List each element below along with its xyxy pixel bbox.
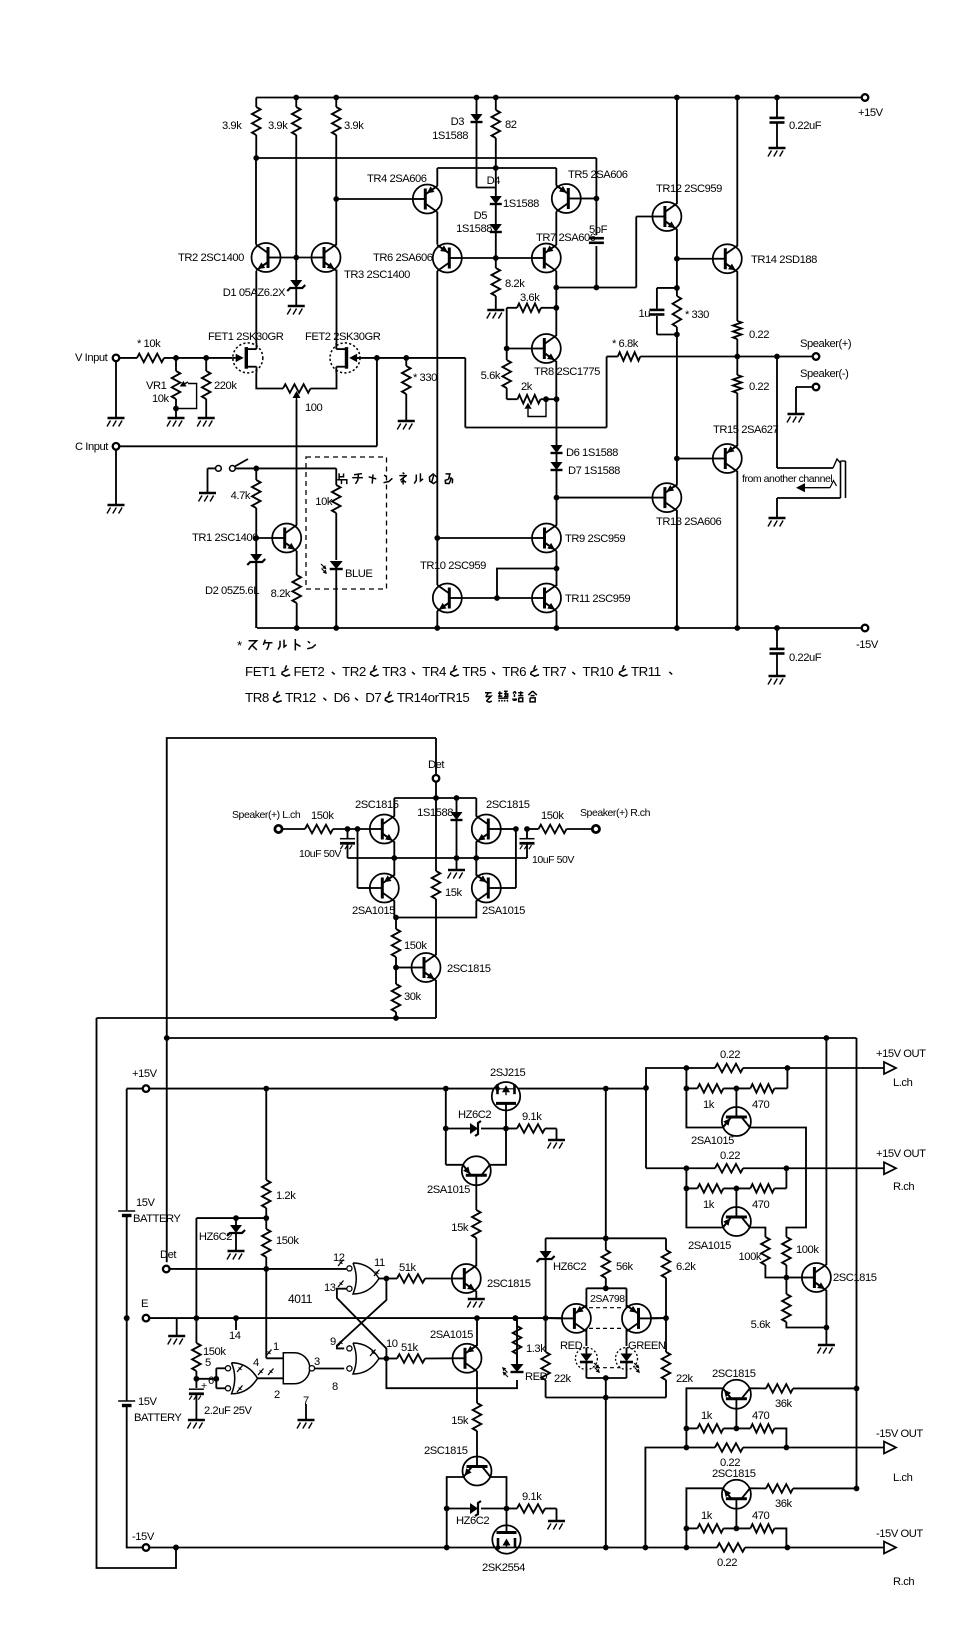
wire lim2 left col <box>685 1168 687 1188</box>
svg-text:2SJ215: 2SJ215 <box>490 1067 525 1079</box>
svg-text:5.6k: 5.6k <box>481 370 501 382</box>
resistor 0.22 out Lch- <box>715 1443 743 1452</box>
wire lim1 left col <box>685 1068 687 1088</box>
wire TR4 emitter to TR6 <box>436 212 438 245</box>
resistor 8.2k bias <box>495 258 497 268</box>
svg-text:6: 6 <box>208 1375 214 1387</box>
svg-text:D7 1S1588: D7 1S1588 <box>568 465 620 477</box>
gate 4011 A <box>347 1266 352 1271</box>
resistor 470 lim1 <box>734 1086 740 1092</box>
svg-text:9.1k: 9.1k <box>522 1111 542 1123</box>
wire -15V bottom rail <box>257 627 865 629</box>
wire pin14 stub <box>235 1318 237 1330</box>
wire det tr base <box>396 967 412 969</box>
svg-text:TR6: TR6 <box>502 664 526 679</box>
wire 2SA1015a collector <box>490 1129 506 1165</box>
resistor 1.3k <box>513 1315 519 1321</box>
wire TR9 emitter <box>556 551 558 586</box>
resistor 6.2k <box>665 1238 667 1250</box>
svg-text:2SK2554: 2SK2554 <box>482 1562 525 1574</box>
LED RED box <box>575 1348 597 1370</box>
svg-text:22k: 22k <box>676 1373 694 1385</box>
diode HZ6C2 zener a <box>446 1128 470 1130</box>
svg-text:C Input: C Input <box>75 441 109 453</box>
gate 4011 B <box>347 1346 352 1351</box>
wire gateC out <box>258 1377 284 1379</box>
wire rail1038 <box>167 1037 857 1039</box>
svg-text:R.ch: R.ch <box>893 1181 914 1193</box>
svg-text:+15V: +15V <box>858 107 884 119</box>
transistor 2SA798 left <box>562 1304 591 1333</box>
wire D6D7 column <box>556 399 558 445</box>
svg-text:2SC1815: 2SC1815 <box>486 799 530 811</box>
wire TR1 base <box>256 537 272 539</box>
LED GREEN box <box>616 1348 638 1370</box>
svg-text:TR3: TR3 <box>382 664 406 679</box>
input V terminal <box>113 355 120 362</box>
svg-text:51k: 51k <box>401 1342 419 1354</box>
svg-text:100k: 100k <box>796 1244 819 1256</box>
svg-text:FET2 2SK30GR: FET2 2SK30GR <box>305 331 381 343</box>
ground HZ6C2 b <box>228 1250 245 1253</box>
resistor 0.22 out Rch- <box>717 1543 745 1552</box>
wire reg b base <box>476 1431 478 1457</box>
svg-text:TR5: TR5 <box>462 664 486 679</box>
svg-text:TR15 2SA627: TR15 2SA627 <box>713 424 779 436</box>
svg-text:36k: 36k <box>775 1398 793 1410</box>
resistor 1k lim4 <box>686 1527 697 1529</box>
svg-text:+15V: +15V <box>132 1068 158 1080</box>
transistor TR2 2SC1400 <box>252 243 281 272</box>
transistor 2SC1815 reg b <box>463 1457 492 1486</box>
terminal Det mid <box>433 775 440 782</box>
terminal Det lower <box>163 1266 170 1273</box>
resistor 10k lamp <box>335 468 337 485</box>
gate 4011 D nand <box>283 1353 309 1384</box>
svg-text:Speaker(-): Speaker(-) <box>800 368 849 380</box>
resistor 51k b <box>386 1358 397 1360</box>
svg-text:100: 100 <box>305 402 323 414</box>
wire lim3 base <box>735 1409 737 1429</box>
diode D5 1S1588 <box>490 224 502 232</box>
svg-text:470: 470 <box>752 1410 770 1422</box>
wire 798 bases <box>546 1317 562 1319</box>
wire battery column <box>126 1089 128 1211</box>
svg-text:1S1588: 1S1588 <box>432 130 468 142</box>
wire lim2 470 up <box>785 1168 787 1188</box>
resistor 470 lim4 <box>723 1527 750 1529</box>
transistor 2SA1015 latch <box>453 1344 482 1373</box>
svg-text:D6 1S1588: D6 1S1588 <box>566 447 618 459</box>
transistor TR4 2SA606 <box>413 185 442 214</box>
capacitor 10uF 50V Lch <box>347 829 349 838</box>
wire FET1 drain <box>255 271 257 343</box>
resistor 1k lim1 <box>686 1087 697 1089</box>
svg-text:2k: 2k <box>521 381 533 393</box>
output arrow +15V L.ch <box>884 1062 896 1074</box>
svg-text:TR14orTR15: TR14orTR15 <box>397 690 470 705</box>
transistor 2SC1815 shutdown <box>802 1263 831 1292</box>
svg-text:-15V OUT: -15V OUT <box>876 1528 923 1540</box>
wire TR2 collector <box>255 158 257 245</box>
wire 36k column <box>856 1038 858 1488</box>
ground pin7 <box>305 1404 307 1419</box>
svg-text:150k: 150k <box>541 810 564 822</box>
svg-text:*: * <box>237 638 242 653</box>
svg-text:10uF 50V: 10uF 50V <box>299 848 341 860</box>
wire C input gnd <box>115 450 117 504</box>
ground jack <box>769 517 786 520</box>
svg-text:TR12 2SC959: TR12 2SC959 <box>656 183 722 195</box>
wire speaker row <box>737 356 812 358</box>
svg-text:1: 1 <box>273 1341 279 1353</box>
ground 2.2uF <box>188 1419 205 1422</box>
svg-text:2SA798: 2SA798 <box>590 1293 625 1305</box>
svg-text:15k: 15k <box>451 1415 469 1427</box>
wire TR5 base <box>581 198 597 200</box>
capacitor 10uF 50V Rch <box>526 829 528 838</box>
svg-text:FET1 2SK30GR: FET1 2SK30GR <box>208 331 284 343</box>
transistor TR6 2SA606 <box>433 244 462 273</box>
wire bridge L emitter <box>393 842 395 859</box>
svg-text:1.2k: 1.2k <box>276 1190 296 1202</box>
wire bridge bottom rail <box>348 857 528 859</box>
resistor 5.6k shutdown <box>785 1278 787 1295</box>
wire TR1 emitter 8.2k <box>296 551 298 575</box>
ground D1 <box>288 305 305 308</box>
svg-text:2.2uF 25V: 2.2uF 25V <box>204 1405 253 1417</box>
svg-text:D3: D3 <box>451 116 465 128</box>
wire 2SJ215 gate <box>505 1110 507 1128</box>
svg-text:V Input: V Input <box>75 352 109 364</box>
ground C input <box>108 504 125 507</box>
transistor 2SC1815 det <box>412 953 441 982</box>
svg-text:TR7 2SA606: TR7 2SA606 <box>536 232 596 244</box>
gate 4011 C <box>225 1366 230 1371</box>
svg-text:1S1588: 1S1588 <box>456 223 492 235</box>
resistor 0.22 out Lch+ <box>715 1064 743 1073</box>
svg-text:100k: 100k <box>739 1251 762 1263</box>
capacitor 5pF <box>589 237 604 240</box>
resistor 3.9k #1 <box>255 98 257 108</box>
wire det to gate1 <box>265 1269 267 1358</box>
svg-text:1k: 1k <box>703 1099 715 1111</box>
transistor TR10 2SC959 <box>433 584 462 613</box>
ground 9.1k a <box>548 1139 565 1142</box>
resistor 9.1k b <box>507 1508 518 1510</box>
svg-text:+: + <box>201 1380 207 1392</box>
wire 6.8k feedback path <box>606 357 608 428</box>
wire latch emitter <box>476 1371 478 1403</box>
capacitor 0.22uF bottom <box>776 628 778 649</box>
transistor FET2 2SK30GR <box>330 343 360 373</box>
svg-text:1k: 1k <box>701 1510 713 1522</box>
ground 8.2k <box>487 309 504 312</box>
svg-text:TR5 2SA606: TR5 2SA606 <box>568 169 628 181</box>
transistor TR8 2SC1775 <box>532 334 561 363</box>
svg-text:TR8 2SC1775: TR8 2SC1775 <box>534 366 600 378</box>
resistor 51k a <box>386 1278 397 1280</box>
wire 2SA1015R ce <box>475 858 477 876</box>
svg-text:1.3k: 1.3k <box>526 1343 546 1355</box>
resistor 36k lim4 <box>750 1487 766 1489</box>
diode D1 05AZ6.2X zener <box>295 258 297 281</box>
svg-text:13: 13 <box>324 1282 336 1294</box>
diode HZ6C2 zener b <box>235 1218 237 1225</box>
wire TR4 collector <box>436 168 438 186</box>
wire +15V top rail <box>256 97 865 99</box>
wire row287 <box>556 287 636 289</box>
svg-text:0.22uF: 0.22uF <box>789 652 822 664</box>
svg-text:11: 11 <box>374 1257 385 1269</box>
ground 0.22uF bottom <box>769 675 786 678</box>
wire TR12 emitter column <box>676 229 678 288</box>
svg-text:from another channel: from another channel <box>742 473 832 485</box>
svg-text:0.22: 0.22 <box>717 1557 737 1569</box>
wire 2SA1015L ce <box>393 858 395 876</box>
transistor TR9 2SC959 <box>532 524 561 553</box>
wire 2SA798 box <box>586 1287 626 1289</box>
wire gateB to red led <box>386 1359 517 1389</box>
wire TR8 collector <box>555 288 557 337</box>
ground E <box>176 1318 178 1335</box>
wire TR7 emitter <box>555 271 557 288</box>
wire det tr emitter <box>435 980 437 1018</box>
svg-text:5pF: 5pF <box>589 224 608 236</box>
terminal -15V lower <box>143 1544 150 1551</box>
svg-text:150k: 150k <box>311 810 334 822</box>
resistor 1k lim3 <box>686 1427 697 1429</box>
wire VAS column <box>436 271 438 585</box>
svg-text:150k: 150k <box>404 940 427 952</box>
svg-text:6.2k: 6.2k <box>676 1261 696 1273</box>
wire speaker minus gnd <box>796 386 812 388</box>
wire gateA out <box>379 1278 386 1280</box>
svg-text:+15V OUT: +15V OUT <box>876 1048 926 1060</box>
svg-text:15k: 15k <box>451 1222 469 1234</box>
svg-text:3.9k: 3.9k <box>268 120 288 132</box>
svg-text:4: 4 <box>253 1357 259 1369</box>
battery 15V lower <box>118 1400 135 1402</box>
svg-text:36k: 36k <box>775 1498 793 1510</box>
svg-text:22k: 22k <box>554 1373 572 1385</box>
resistor 0.22 out Rch+ <box>715 1164 743 1173</box>
resistor 3.6k <box>553 305 559 311</box>
ground 9.1k b <box>548 1520 565 1523</box>
potentiometer 100 wiper <box>296 398 298 400</box>
svg-text:2SA1015: 2SA1015 <box>430 1329 473 1341</box>
wire gateB out <box>379 1358 386 1360</box>
svg-text:VR1: VR1 <box>146 380 167 392</box>
wire E rail <box>149 1317 562 1319</box>
wire 606 column bottom <box>605 1398 607 1548</box>
svg-text:FET1: FET1 <box>245 664 276 679</box>
ground speaker minus <box>788 413 805 416</box>
wire reg a emitter <box>475 1291 477 1298</box>
wire TR4 base <box>336 198 413 200</box>
wire bridge R emitter <box>475 842 477 859</box>
wire gateA out cross path <box>337 1279 387 1349</box>
wire bridge R base <box>501 828 516 830</box>
wire bridge L collector <box>393 798 395 817</box>
svg-text:TR14 2SD188: TR14 2SD188 <box>751 254 817 266</box>
resistor 82 <box>495 98 497 111</box>
wire TR13 emitter <box>676 510 678 628</box>
diode D3 1S1588 <box>476 98 478 115</box>
wire bridge R collector <box>475 798 477 817</box>
wire latch collector <box>476 1318 478 1346</box>
svg-text:470: 470 <box>752 1199 770 1211</box>
wire hz row top <box>445 1089 447 1165</box>
ground reg a <box>468 1298 485 1301</box>
wire lim2 collector <box>750 1228 766 1238</box>
wire +15V lower rail <box>149 1088 646 1090</box>
svg-text:1k: 1k <box>701 1410 713 1422</box>
svg-text:HZ6C2: HZ6C2 <box>458 1109 491 1121</box>
wire bridge top rail <box>394 797 476 799</box>
svg-text:10k: 10k <box>152 393 170 405</box>
resistor 15k a <box>475 1185 477 1210</box>
terminal Speaker(+) L.ch <box>275 825 282 832</box>
svg-text:* 10k: * 10k <box>137 338 161 350</box>
transistor TR11 2SC959 <box>532 584 561 613</box>
svg-text:D7: D7 <box>365 690 381 705</box>
wire FET2 gate row <box>354 357 466 359</box>
wire shutdown base <box>786 1277 802 1279</box>
svg-text:L.ch: L.ch <box>893 1472 913 1484</box>
wire TR13 base row <box>557 497 653 499</box>
diode D4 1S1588 <box>490 196 502 204</box>
wire TR10-TR11 base row <box>462 597 532 599</box>
wire lim1 470 up <box>786 1068 788 1088</box>
resistor 150k Lch <box>282 828 305 830</box>
svg-text:3.9k: 3.9k <box>222 120 242 132</box>
wire det stub <box>435 738 437 775</box>
svg-text:2SC1815: 2SC1815 <box>447 963 491 975</box>
terminal +15V lower <box>143 1085 150 1092</box>
LED BLUE <box>330 561 343 569</box>
wire gateC inputs <box>196 1378 216 1380</box>
resistor 0.22 upper <box>733 321 742 339</box>
potentiometer 2k <box>507 398 518 400</box>
svg-text:TR13 2SA606: TR13 2SA606 <box>656 516 722 528</box>
wire rail1018 <box>97 1017 437 1019</box>
wire TR10 collector <box>436 584 438 587</box>
ground shutdown <box>825 1328 827 1345</box>
wire C input row <box>119 445 377 447</box>
wire det row <box>170 1268 347 1270</box>
svg-text:E: E <box>141 1298 148 1310</box>
wire lim3 emitter <box>686 1388 723 1447</box>
svg-text:2SC1815: 2SC1815 <box>833 1272 877 1284</box>
wire rail2 <box>256 157 596 159</box>
resistor 9.1k a <box>506 1128 517 1130</box>
transistor 2SA1015 lim2 <box>735 1188 737 1207</box>
wire TR9 base row <box>437 537 532 539</box>
svg-text:470: 470 <box>752 1510 770 1522</box>
resistor 3.9k #2 <box>295 98 297 108</box>
wire TR15 collector <box>736 393 738 446</box>
svg-text:9.1k: 9.1k <box>522 1491 542 1503</box>
battery 15V upper <box>118 1210 135 1212</box>
svg-text:RED: RED <box>560 1340 583 1352</box>
resistor 30k <box>395 968 397 985</box>
svg-text:3.9k: 3.9k <box>344 120 364 132</box>
svg-text:15V: 15V <box>136 1197 156 1209</box>
svg-text:TR12: TR12 <box>285 690 316 705</box>
resistor 56k <box>605 1238 607 1250</box>
resistor 470 lim3 <box>723 1427 750 1429</box>
terminal Speaker(+) R.ch <box>592 825 599 832</box>
transistor 2SC1815 lim3 <box>722 1380 751 1409</box>
capacitor 0.22uF top <box>776 98 778 118</box>
svg-text:5.6k: 5.6k <box>751 1319 771 1331</box>
svg-text:0.22: 0.22 <box>720 1049 740 1061</box>
svg-text:TR8: TR8 <box>245 690 269 705</box>
resistor 150k det2 <box>395 918 397 930</box>
svg-text:2SC1815: 2SC1815 <box>355 799 399 811</box>
svg-text:* 330: * 330 <box>413 372 437 384</box>
svg-text:* 6.8k: * 6.8k <box>612 338 639 350</box>
svg-text:2SA1015: 2SA1015 <box>482 905 525 917</box>
transistor 2SA798 right <box>622 1304 651 1333</box>
svg-text:Speaker(+) L.ch: Speaker(+) L.ch <box>232 809 301 821</box>
wire TR8 emitter <box>555 361 557 399</box>
transistor 2SA1015 bridge R <box>472 874 501 903</box>
input C terminal <box>113 443 120 450</box>
svg-text:10: 10 <box>386 1338 398 1350</box>
svg-text:7: 7 <box>303 1395 309 1407</box>
resistor 0.22 lower <box>736 357 738 376</box>
resistor 100k left <box>761 1237 770 1265</box>
diode D2 05Z5.6L zener <box>255 538 257 554</box>
svg-text:TR2: TR2 <box>342 664 366 679</box>
svg-text:TR11 2SC959: TR11 2SC959 <box>565 593 630 605</box>
resistor 4.7k <box>255 468 257 480</box>
svg-text:9: 9 <box>330 1336 336 1348</box>
svg-text:0.22: 0.22 <box>749 329 769 341</box>
svg-text:BATTERY: BATTERY <box>134 1412 182 1424</box>
svg-text:2: 2 <box>274 1389 280 1401</box>
output arrow -15V L.ch <box>884 1442 896 1454</box>
resistor *330 fet <box>405 358 407 366</box>
transistor 2SC1815 bridge R <box>472 815 501 844</box>
wire y168 <box>437 167 556 169</box>
wire TR14 emitter <box>736 271 738 321</box>
diode HZ6C2 zener c <box>447 1508 470 1510</box>
ground 220k <box>198 417 215 420</box>
svg-text:TR4 2SA606: TR4 2SA606 <box>367 173 427 185</box>
wire TR12 collector <box>676 98 678 205</box>
svg-text:TR10: TR10 <box>582 664 613 679</box>
svg-text:220k: 220k <box>214 380 237 392</box>
svg-text:51k: 51k <box>399 1262 417 1274</box>
svg-text:TR9 2SC959: TR9 2SC959 <box>565 533 625 545</box>
svg-text:82: 82 <box>505 119 517 131</box>
wire -row1447 <box>645 1448 715 1548</box>
svg-text:2SA1015: 2SA1015 <box>427 1184 470 1196</box>
svg-text:0.22: 0.22 <box>749 381 769 393</box>
svg-text:10k: 10k <box>315 496 333 508</box>
wire 56k column top <box>605 1089 607 1239</box>
svg-text:TR4: TR4 <box>422 664 447 679</box>
resistor 3.9k #3 <box>335 98 337 108</box>
resistor 22k left <box>545 1318 547 1352</box>
svg-text:14: 14 <box>229 1330 241 1342</box>
transistor FET1 2SK30GR <box>233 343 263 373</box>
svg-text:2SC1815: 2SC1815 <box>712 1468 756 1480</box>
resistor 15k det <box>432 871 441 899</box>
